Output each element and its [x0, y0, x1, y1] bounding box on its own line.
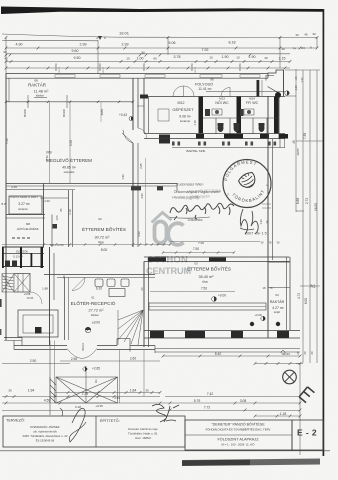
svg-text:1.18: 1.18	[193, 120, 197, 126]
svg-text:FÖLDSZINT ALAPRAJZ: FÖLDSZINT ALAPRAJZ	[217, 438, 259, 442]
svg-text:06: 06	[210, 78, 214, 82]
svg-text:TERVEZŐ:: TERVEZŐ:	[6, 418, 25, 423]
svg-text:2.60: 2.60	[130, 357, 136, 361]
svg-text:6.00: 6.00	[304, 298, 308, 304]
svg-text:8.40: 8.40	[215, 352, 222, 356]
svg-text:4.90: 4.90	[16, 43, 23, 47]
svg-text:M13: M13	[219, 97, 225, 101]
svg-text:FFI WC: FFI WC	[246, 101, 259, 105]
svg-text:90/210: 90/210	[82, 343, 85, 351]
svg-text:2.28: 2.28	[82, 392, 89, 396]
svg-text:E - 2: E - 2	[297, 428, 317, 438]
svg-text:klinker: klinker	[91, 313, 99, 317]
svg-text:1.18: 1.18	[280, 412, 287, 416]
svg-text:20: 20	[303, 351, 307, 355]
svg-text:M14: M14	[249, 97, 255, 101]
svg-text:9.50: 9.50	[74, 56, 81, 60]
svg-text:svájci: svájci	[274, 310, 281, 314]
svg-text:GÉPÉSZET: GÉPÉSZET	[172, 107, 194, 112]
svg-text:7.38: 7.38	[303, 133, 307, 139]
svg-text:9.06 m²: 9.06 m²	[179, 115, 191, 119]
svg-text:80/100: 80/100	[23, 108, 27, 116]
svg-text:4.90: 4.90	[137, 231, 141, 237]
svg-text:30: 30	[264, 56, 268, 60]
svg-text:B.W: B.W	[2, 202, 7, 206]
svg-text:ÉTTEREM BŐVÍTÉS: ÉTTEREM BŐVÍTÉS	[82, 226, 126, 232]
svg-text:10: 10	[209, 56, 213, 60]
svg-text:60/60: 60/60	[100, 108, 104, 115]
svg-text:1.94: 1.94	[28, 389, 35, 393]
svg-text:7.42: 7.42	[207, 392, 214, 396]
svg-text:7.50: 7.50	[201, 287, 207, 291]
svg-text:30: 30	[295, 33, 299, 37]
svg-text:27.72 m²: 27.72 m²	[89, 309, 105, 313]
svg-text:1.84: 1.84	[130, 389, 137, 393]
svg-text:ÉTTEREM BŐVÍTÉS: ÉTTEREM BŐVÍTÉS	[187, 266, 231, 272]
svg-text:8.18: 8.18	[229, 41, 236, 45]
svg-text:11.41 m²: 11.41 m²	[198, 87, 212, 91]
svg-text:jóváhagyás: jóváhagyás	[189, 194, 209, 199]
svg-text:3.08: 3.08	[240, 399, 247, 403]
svg-text:7.72: 7.72	[204, 406, 211, 410]
svg-text:10: 10	[126, 57, 130, 61]
svg-text:+0.88: +0.88	[24, 292, 31, 296]
svg-text:K: K	[104, 36, 106, 40]
svg-text:7.50: 7.50	[193, 247, 199, 251]
svg-text:ELŐTÉR-RECEPCIÓ: ELŐTÉR-RECEPCIÓ	[71, 300, 116, 306]
svg-text:1.30: 1.30	[259, 219, 263, 225]
svg-text:BARTEL SKB.: BARTEL SKB.	[186, 149, 205, 153]
svg-text:M = 1 : 100 - 20: M = 1 : 100 - 2006. 11. HÓ	[222, 442, 256, 447]
svg-text:1.90: 1.90	[222, 55, 229, 59]
svg-text:2.85: 2.85	[139, 163, 143, 169]
svg-text:20 70: 20 70	[103, 66, 105, 72]
svg-text:2.99: 2.99	[122, 43, 129, 47]
svg-text:+2.65: +2.65	[92, 367, 100, 371]
svg-text:1.05: 1.05	[55, 215, 59, 221]
svg-text:16.00: 16.00	[314, 203, 318, 211]
svg-text:3.78: 3.78	[174, 55, 181, 59]
svg-text:3.50: 3.50	[45, 155, 49, 161]
svg-text:1.30: 1.30	[300, 77, 304, 83]
svg-text:45: 45	[304, 33, 308, 37]
svg-text:K1: K1	[94, 379, 98, 383]
svg-text:5.50: 5.50	[69, 140, 73, 146]
svg-text:MEGLÉVŐ ÉTTEREM: MEGLÉVŐ ÉTTEREM	[46, 157, 92, 163]
svg-text:Hrsz. 1685/2: Hrsz. 1685/2	[135, 436, 151, 440]
svg-text:7.: 7.	[227, 193, 230, 197]
svg-text:24: 24	[301, 46, 305, 50]
svg-text:2.90: 2.90	[30, 359, 37, 363]
svg-text:+0,43: +0,43	[119, 113, 127, 117]
svg-text:kerámia: kerámia	[180, 119, 190, 123]
svg-text:9.18: 9.18	[75, 405, 81, 409]
svg-text:4.53: 4.53	[114, 396, 120, 400]
svg-text:1.00: 1.00	[44, 199, 50, 203]
svg-text:4.45: 4.45	[11, 185, 17, 189]
svg-text:2.98: 2.98	[71, 357, 77, 361]
svg-text:5.16: 5.16	[5, 138, 9, 144]
svg-text:80/100: 80/100	[62, 108, 66, 116]
svg-text:M6: M6	[50, 243, 54, 247]
svg-text:4.59: 4.59	[44, 399, 51, 403]
svg-text:8.00: 8.00	[101, 248, 108, 252]
svg-text:FOLYOSÓ: FOLYOSÓ	[195, 82, 213, 87]
svg-text:4.72: 4.72	[297, 293, 301, 299]
svg-text:Törökbálint, Határ u. 20.: Törökbálint, Határ u. 20.	[128, 432, 158, 436]
svg-text:2.18: 2.18	[68, 209, 72, 215]
svg-text:35.40 m²: 35.40 m²	[199, 275, 215, 279]
svg-text:45: 45	[292, 140, 296, 144]
svg-text:90/150: 90/150	[99, 63, 102, 71]
svg-text:7.00: 7.00	[198, 241, 204, 245]
svg-text:90: 90	[141, 51, 145, 55]
svg-text:±0.00: ±0.00	[92, 321, 100, 325]
svg-text:TISZTA SZÁR.Á RAKT: TISZTA SZÁR.Á RAKT	[10, 195, 39, 199]
svg-text:5.79: 5.79	[194, 399, 201, 403]
svg-text:90: 90	[3, 50, 7, 54]
svg-text:5.13 m²: 5.13 m²	[13, 255, 23, 259]
svg-text:NŐI WC: NŐI WC	[215, 100, 229, 105]
svg-text:kerámia: kerámia	[18, 207, 28, 211]
svg-text:30: 30	[281, 47, 285, 51]
svg-text:20: 20	[310, 351, 314, 355]
svg-text:19.01: 19.01	[119, 31, 130, 36]
svg-text:6.20: 6.20	[96, 287, 102, 291]
svg-text:M12: M12	[178, 101, 185, 105]
svg-text:+0.35: +0.35	[95, 404, 103, 408]
svg-text:40: 40	[4, 57, 8, 61]
svg-text:20: 20	[296, 351, 300, 355]
svg-text:sörpadló: sörpadló	[64, 170, 75, 174]
svg-text:Demeter László és neje: Demeter László és neje	[128, 427, 158, 431]
svg-text:02: 02	[98, 217, 102, 221]
svg-text:90/150: 90/150	[143, 63, 146, 71]
svg-text:7.92: 7.92	[202, 48, 209, 52]
svg-text:M9: M9	[46, 151, 51, 155]
svg-text:ÉPÍTTETŐ:: ÉPÍTTETŐ:	[100, 418, 120, 423]
svg-text:RAKTÁR: RAKTÁR	[28, 83, 46, 88]
svg-text:"DEMETER" PANZIÓ BŐVÍTÉSE: "DEMETER" PANZIÓ BŐVÍTÉSE	[211, 422, 265, 427]
svg-text:3.27 m²: 3.27 m²	[18, 202, 30, 206]
svg-text:01: 01	[91, 296, 95, 300]
svg-text:20 70: 20 70	[59, 66, 61, 72]
svg-text:30/25: 30/25	[296, 148, 300, 155]
svg-text:RAKTÁR: RAKTÁR	[270, 300, 285, 304]
svg-text:74: 74	[292, 47, 296, 51]
svg-text:+0.08: +0.08	[254, 313, 262, 317]
svg-text:1.00: 1.00	[137, 57, 144, 61]
svg-text:HŰTŐ-ELŐKÉSZ.: HŰTŐ-ELŐKÉSZ.	[17, 226, 40, 231]
svg-text:1.88: 1.88	[42, 287, 48, 291]
svg-text:03: 03	[194, 262, 198, 266]
svg-text:5.06: 5.06	[169, 41, 176, 45]
svg-text:20 70: 20 70	[195, 66, 197, 72]
svg-text:90/150: 90/150	[191, 63, 194, 71]
svg-text:20: 20	[140, 287, 144, 291]
svg-text:M8: M8	[26, 222, 30, 226]
svg-text:4.27 m²: 4.27 m²	[272, 306, 284, 310]
svg-text:39: 39	[8, 389, 12, 393]
svg-text:Tudomásul Wien: Tudomásul Wien	[177, 183, 204, 187]
svg-text:KISMARJÁN JÓZSEF: KISMARJÁN JÓZSEF	[30, 424, 60, 429]
svg-text:90/150: 90/150	[55, 63, 58, 71]
svg-text:h1: h1	[311, 284, 316, 289]
svg-text:39: 39	[145, 389, 149, 393]
svg-text:±0.00: ±0.00	[27, 296, 34, 300]
svg-text:+1.00: +1.00	[56, 243, 64, 247]
svg-text:tölgy: tölgy	[202, 279, 209, 283]
svg-text:2.72: 2.72	[305, 198, 309, 204]
svg-text:2045. Törökbálint, Alsóerdősor: 2045. Törökbálint, Alsóerdősor u. 23	[23, 434, 68, 438]
svg-text:10: 10	[236, 56, 240, 60]
svg-text:klinker: klinker	[36, 94, 44, 98]
svg-text:9.60: 9.60	[72, 49, 79, 53]
svg-text:tölgy: tölgy	[98, 240, 105, 244]
svg-text:+0.00: +0.00	[218, 294, 226, 298]
svg-text:4.90: 4.90	[140, 193, 144, 199]
svg-text:04: 04	[275, 293, 279, 297]
svg-text:É1-13/0043-06: É1-13/0043-06	[36, 438, 55, 443]
svg-text:90/150: 90/150	[239, 63, 242, 71]
svg-text:MEGLŐ PETTERA: MEGLŐ PETTERA	[189, 188, 222, 194]
svg-text:90: 90	[153, 57, 157, 61]
svg-text:FŐHOMLOKZATA ÉS TOVÁBBÉPÍTÉS E: FŐHOMLOKZATA ÉS TOVÁBBÉPÍTÉS ENG. TERV	[206, 427, 271, 432]
svg-text:oki. építészmérnök: oki. építészmérnök	[33, 430, 57, 434]
svg-text:1.90: 1.90	[121, 174, 125, 180]
svg-text:2.99: 2.99	[80, 43, 87, 47]
svg-text:1.15: 1.15	[279, 57, 286, 61]
svg-text:6.88: 6.88	[296, 198, 300, 204]
svg-text:30: 30	[312, 32, 316, 36]
svg-text:30: 30	[62, 275, 66, 279]
